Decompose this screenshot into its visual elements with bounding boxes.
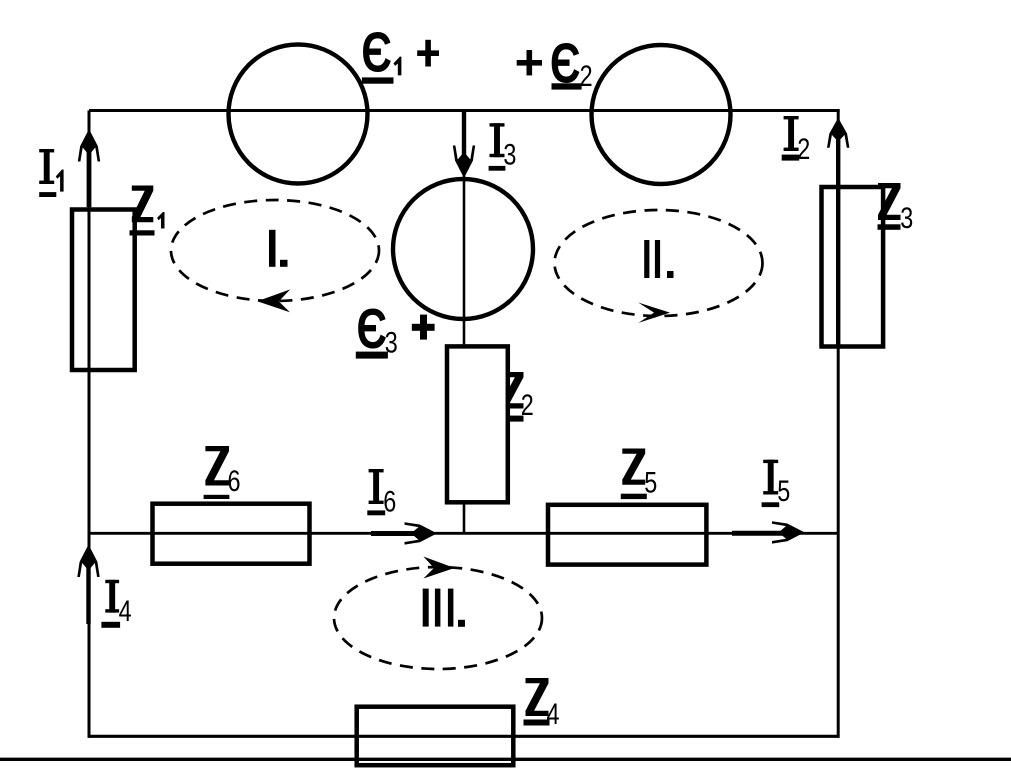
source E1 (circle) xyxy=(229,45,368,184)
source E3 (circle) xyxy=(393,179,533,319)
svg-text:5: 5 xyxy=(644,466,657,499)
current arrow I2 xyxy=(827,118,849,345)
label Z3 xyxy=(878,183,914,235)
impedance Z1 (rectangle) xyxy=(72,210,135,371)
mesh loop III direction arrow xyxy=(423,557,454,579)
svg-text:2: 2 xyxy=(797,132,810,165)
label Z4 xyxy=(524,678,560,731)
label III. (mesh III) xyxy=(423,589,465,627)
svg-text:4: 4 xyxy=(547,697,560,730)
svg-text:3: 3 xyxy=(503,138,516,171)
label Z6 xyxy=(204,446,241,499)
mesh loop III (dashed ellipse) xyxy=(334,567,542,669)
polarity + of E1 xyxy=(417,40,439,67)
source E2 (circle) xyxy=(592,45,731,184)
label I1 xyxy=(39,149,63,197)
polarity + of E2 xyxy=(517,50,542,75)
label Z2 xyxy=(501,372,534,422)
impedance Z4 (rectangle) xyxy=(357,707,514,766)
page rule line at bottom xyxy=(0,758,1011,761)
wire top (node between E1 and E2 branches) xyxy=(89,109,840,112)
mesh loop II (dashed ellipse) xyxy=(555,210,763,316)
wire middle horizontal (node row) xyxy=(89,532,838,535)
polarity + of E3 xyxy=(412,315,435,340)
label I. (mesh I) xyxy=(269,230,288,267)
impedance Z2 (rectangle) xyxy=(447,346,508,502)
label I4 xyxy=(101,580,131,628)
label Z5 xyxy=(621,449,657,500)
current arrow I5 xyxy=(732,521,805,543)
impedance Z3 (rectangle) xyxy=(822,187,884,347)
current arrow I3 xyxy=(453,112,475,178)
current arrow I4 xyxy=(77,545,99,625)
label I5 xyxy=(762,460,791,508)
svg-text:2: 2 xyxy=(521,388,534,421)
current arrow I6 xyxy=(371,522,437,544)
mesh loop II direction arrow xyxy=(638,303,670,323)
label II. (mesh II) xyxy=(644,240,673,278)
label I6 xyxy=(367,469,396,518)
wire bottom branch xyxy=(89,735,838,738)
mesh loop I (dashed ellipse) xyxy=(171,200,379,301)
svg-text:6: 6 xyxy=(228,464,241,497)
svg-text:Є: Є xyxy=(356,296,387,360)
wire right branch xyxy=(837,111,840,738)
label I2 xyxy=(782,116,811,165)
label E1 xyxy=(361,20,401,84)
svg-text:5: 5 xyxy=(777,474,790,507)
svg-text:3: 3 xyxy=(900,201,913,234)
svg-text:Є: Є xyxy=(361,20,392,84)
impedance Z5 (rectangle) xyxy=(548,505,706,565)
label E3 xyxy=(356,296,398,360)
wire middle vertical (E3/Z2 branch) xyxy=(463,111,466,534)
wire left branch xyxy=(88,111,91,738)
impedance Z6 (rectangle) xyxy=(153,504,310,564)
current arrow I1 xyxy=(78,129,100,207)
label E2 xyxy=(550,31,593,95)
label I3 xyxy=(489,123,517,171)
svg-text:4: 4 xyxy=(119,594,132,627)
mesh loop I direction arrow xyxy=(257,289,290,312)
svg-text:6: 6 xyxy=(383,485,396,518)
label Z1 xyxy=(130,186,165,236)
